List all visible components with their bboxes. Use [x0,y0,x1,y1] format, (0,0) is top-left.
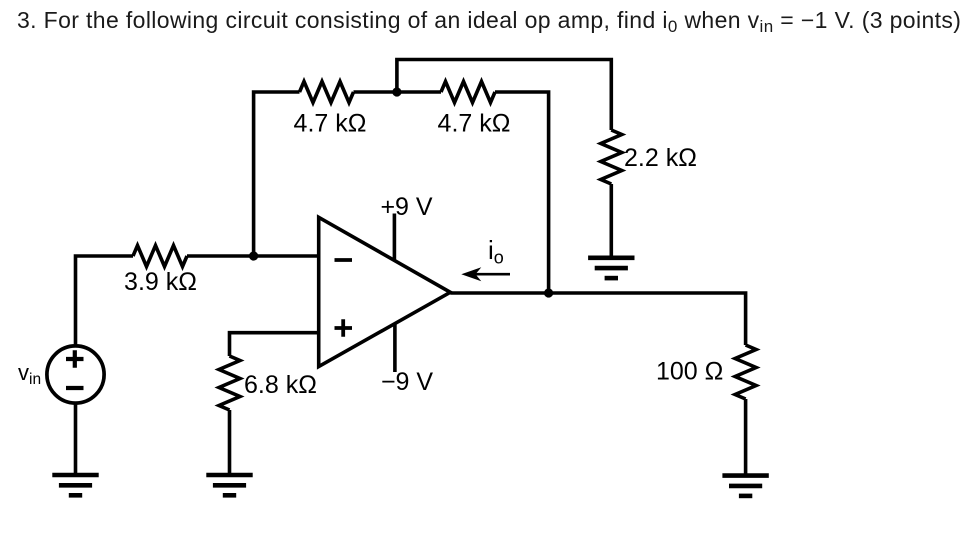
svg-text:3.9 kΩ: 3.9 kΩ [124,268,197,296]
resistor 4.7 kOhm left feedback [300,82,354,103]
node dot inverting input junction [249,251,258,260]
current arrow io [470,273,510,276]
op-amp U1 triangle [319,217,451,366]
svg-text:+9 V: +9 V [380,193,432,221]
svg-text:2.2 kΩ: 2.2 kΩ [624,144,697,172]
wire output row [450,293,745,345]
resistor 2.2 kOhm [601,130,622,184]
wire 100 Ohm to ground [744,399,748,474]
wire 6.8k to ground [228,410,232,473]
svg-text:4.7 kΩ: 4.7 kΩ [438,110,511,138]
ground under 100 Ohm [722,473,768,478]
svg-text:6.8 kΩ: 6.8 kΩ [244,371,317,399]
svg-text:vin: vin [18,360,41,388]
minus sign in source [66,386,84,390]
node dot output junction [544,288,553,297]
minus sign at inverting input [335,258,353,262]
wire between feedback resistors [354,90,442,94]
svg-text:100 Ω: 100 Ω [656,358,723,386]
resistor 4.7 kOhm right feedback [441,82,495,103]
node dot feedback junction [392,87,401,96]
wire source to ground [74,403,78,473]
svg-text:−9 V: −9 V [381,368,433,396]
wire left vertical from feedback row down to inverting node [254,92,300,256]
ground under source [52,473,98,478]
wire top loop: junction up, across, down to 2.2k [397,60,611,131]
wire from right 4.7k down to output node [495,92,549,293]
-9V supply lead [393,323,397,372]
wire noninverting input to 6.8k [230,333,319,356]
wire 3.9k to inverting input [187,254,319,258]
+9V supply lead [393,214,397,261]
source Vin circle [47,346,104,403]
problem title text [17,9,961,32]
svg-text:io: io [488,235,504,268]
wire 2.2k to ground [609,184,613,256]
plus sign in source [66,350,84,368]
plus sign at noninverting input [335,319,353,337]
ground under 6.8 kOhm [206,473,252,478]
wire input row [76,256,134,346]
resistor 6.8 kOhm [219,356,240,410]
ground under 2.2 kOhm [588,255,634,260]
resistor 3.9 kOhm [133,246,187,267]
resistor 100 Ohm [735,345,756,399]
svg-text:4.7 kΩ: 4.7 kΩ [294,110,367,138]
